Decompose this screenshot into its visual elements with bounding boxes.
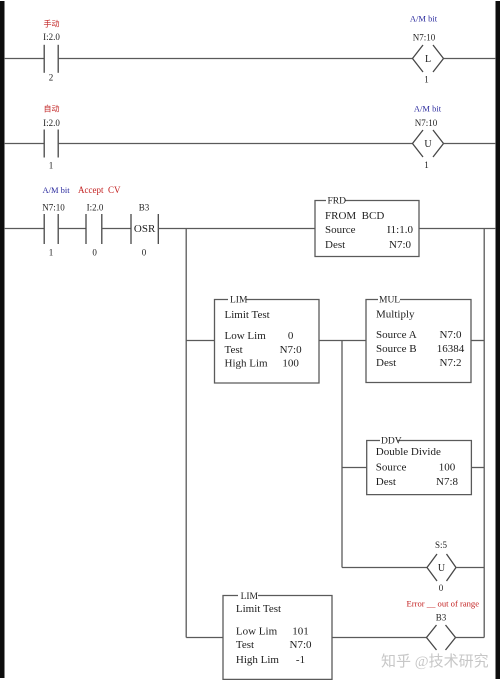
wire rung3 seg2 [58, 228, 86, 230]
wire branch row2 left [186, 340, 214, 342]
svg-text:B3: B3 [139, 203, 150, 213]
svg-text:Low Lim: Low Lim [225, 330, 267, 342]
svg-text:Error __ out of range: Error __ out of range [407, 599, 480, 609]
latch coil L N7:10 rung1 [413, 45, 444, 72]
svg-text:Accept CV: Accept CV [78, 185, 121, 195]
wire branch row4 right [456, 567, 484, 569]
svg-text:Source A: Source A [376, 329, 417, 341]
svg-text:OSR: OSR [134, 223, 156, 235]
svg-text:Limit Test: Limit Test [225, 309, 270, 321]
svg-text:Test: Test [225, 344, 243, 356]
svg-text:N7:10: N7:10 [42, 203, 65, 213]
branch vertical left [185, 229, 187, 638]
svg-text:自动: 自动 [44, 104, 60, 114]
branch vertical middle [341, 341, 343, 568]
watermark 知乎@技术研究 [381, 653, 489, 670]
svg-text:Dest: Dest [325, 239, 345, 251]
wire rung1 right [444, 58, 497, 60]
svg-text:LIM: LIM [241, 592, 259, 602]
svg-text:Limit Test: Limit Test [236, 603, 281, 615]
svg-text:Test: Test [236, 639, 254, 651]
left power rail [0, 1, 5, 678]
svg-text:Dest: Dest [376, 357, 396, 369]
svg-text:L: L [425, 54, 431, 65]
wire rung1 left [4, 58, 44, 60]
svg-text:1: 1 [49, 161, 54, 171]
LIM Limit Test box 1 [215, 300, 320, 384]
svg-text:I:2.0: I:2.0 [43, 32, 60, 42]
wire rung3 seg3 [102, 228, 131, 230]
LIM Limit Test box 2 [223, 596, 332, 680]
contact I:2.0 自动 rung2 [44, 130, 58, 158]
svg-text:-1: -1 [296, 654, 305, 666]
svg-text:N7:0: N7:0 [280, 344, 303, 356]
svg-text:N7:0: N7:0 [290, 639, 313, 651]
contact I:2.0 手动 rung1 [44, 45, 58, 73]
svg-text:FRD: FRD [328, 197, 347, 207]
svg-text:N7:10: N7:10 [415, 118, 438, 128]
wire branch row5 mid [332, 637, 427, 639]
svg-text:1: 1 [424, 75, 429, 85]
svg-text:0: 0 [92, 248, 97, 258]
svg-text:U: U [424, 139, 432, 150]
wire rung1 middle [58, 58, 412, 60]
wire rung2 middle [58, 143, 412, 145]
svg-text:MUL: MUL [379, 296, 400, 306]
svg-text:Source: Source [325, 224, 356, 236]
unlatch coil U N7:10 rung2 [413, 130, 444, 157]
svg-text:N7:2: N7:2 [440, 357, 462, 369]
wire branch row4 left [342, 567, 427, 569]
svg-text:N7:0: N7:0 [440, 329, 463, 341]
svg-text:0: 0 [439, 583, 444, 593]
svg-text:B3: B3 [436, 613, 447, 623]
contact I:2.0 Accept CV rung3 [86, 214, 102, 244]
svg-text:Source B: Source B [376, 343, 417, 355]
svg-text:High Lim: High Lim [225, 358, 269, 370]
svg-text:S:5: S:5 [435, 540, 448, 550]
wire branch row3 left [342, 467, 367, 469]
svg-text:0: 0 [288, 330, 294, 342]
FRD FROM BCD box [315, 201, 419, 257]
wire rung3 left [4, 228, 44, 230]
svg-text:Double Divide: Double Divide [376, 446, 441, 458]
svg-text:FROM BCD: FROM BCD [325, 210, 384, 222]
svg-text:N7:10: N7:10 [413, 33, 436, 43]
svg-text:A/M bit: A/M bit [43, 185, 71, 195]
wire rung3 seg4 [158, 228, 315, 230]
wire branch row2 right [471, 340, 484, 342]
svg-text:I:2.0: I:2.0 [43, 118, 60, 128]
svg-text:Dest: Dest [376, 476, 396, 488]
unlatch coil U S:5 [427, 554, 456, 581]
right power rail [496, 1, 500, 679]
svg-text:0: 0 [142, 248, 147, 258]
svg-text:High Lim: High Lim [236, 654, 280, 666]
svg-text:101: 101 [292, 626, 309, 638]
svg-text:16384: 16384 [437, 343, 465, 355]
svg-text:A/M bit: A/M bit [410, 14, 438, 24]
svg-text:I:2.0: I:2.0 [87, 203, 104, 213]
svg-text:U: U [438, 563, 446, 574]
wire branch row5 left [186, 637, 223, 639]
svg-text:DDV: DDV [381, 437, 402, 447]
one-shot OSR B3 [131, 214, 158, 244]
svg-text:Low Lim: Low Lim [236, 626, 278, 638]
svg-text:知乎 @技术研究: 知乎 @技术研究 [381, 653, 489, 670]
svg-text:手动: 手动 [44, 19, 60, 29]
wire branch row3 right [471, 467, 484, 469]
MUL Multiply box [366, 300, 471, 383]
svg-text:LIM: LIM [230, 296, 248, 306]
output coil B3 [427, 625, 456, 650]
svg-text:N7:8: N7:8 [436, 476, 459, 488]
svg-text:N7:0: N7:0 [389, 239, 412, 251]
svg-text:Multiply: Multiply [376, 309, 415, 321]
wire rung2 right [444, 143, 497, 145]
wire branch row2 mid [319, 340, 366, 342]
DDV Double Divide box [367, 441, 472, 495]
svg-text:Source: Source [376, 461, 407, 473]
contact N7:10 A/M bit rung3 [44, 214, 58, 244]
wire branch row5 right [456, 637, 485, 639]
svg-text:1: 1 [49, 248, 54, 258]
svg-text:A/M bit: A/M bit [414, 104, 442, 114]
svg-text:100: 100 [439, 461, 456, 473]
svg-text:1: 1 [424, 160, 429, 170]
svg-text:I1:1.0: I1:1.0 [387, 224, 413, 236]
svg-text:2: 2 [49, 73, 54, 83]
wire rung2 left [4, 143, 44, 145]
wire rung3 right [419, 228, 496, 230]
svg-text:100: 100 [282, 358, 299, 370]
branch vertical right [483, 229, 485, 638]
